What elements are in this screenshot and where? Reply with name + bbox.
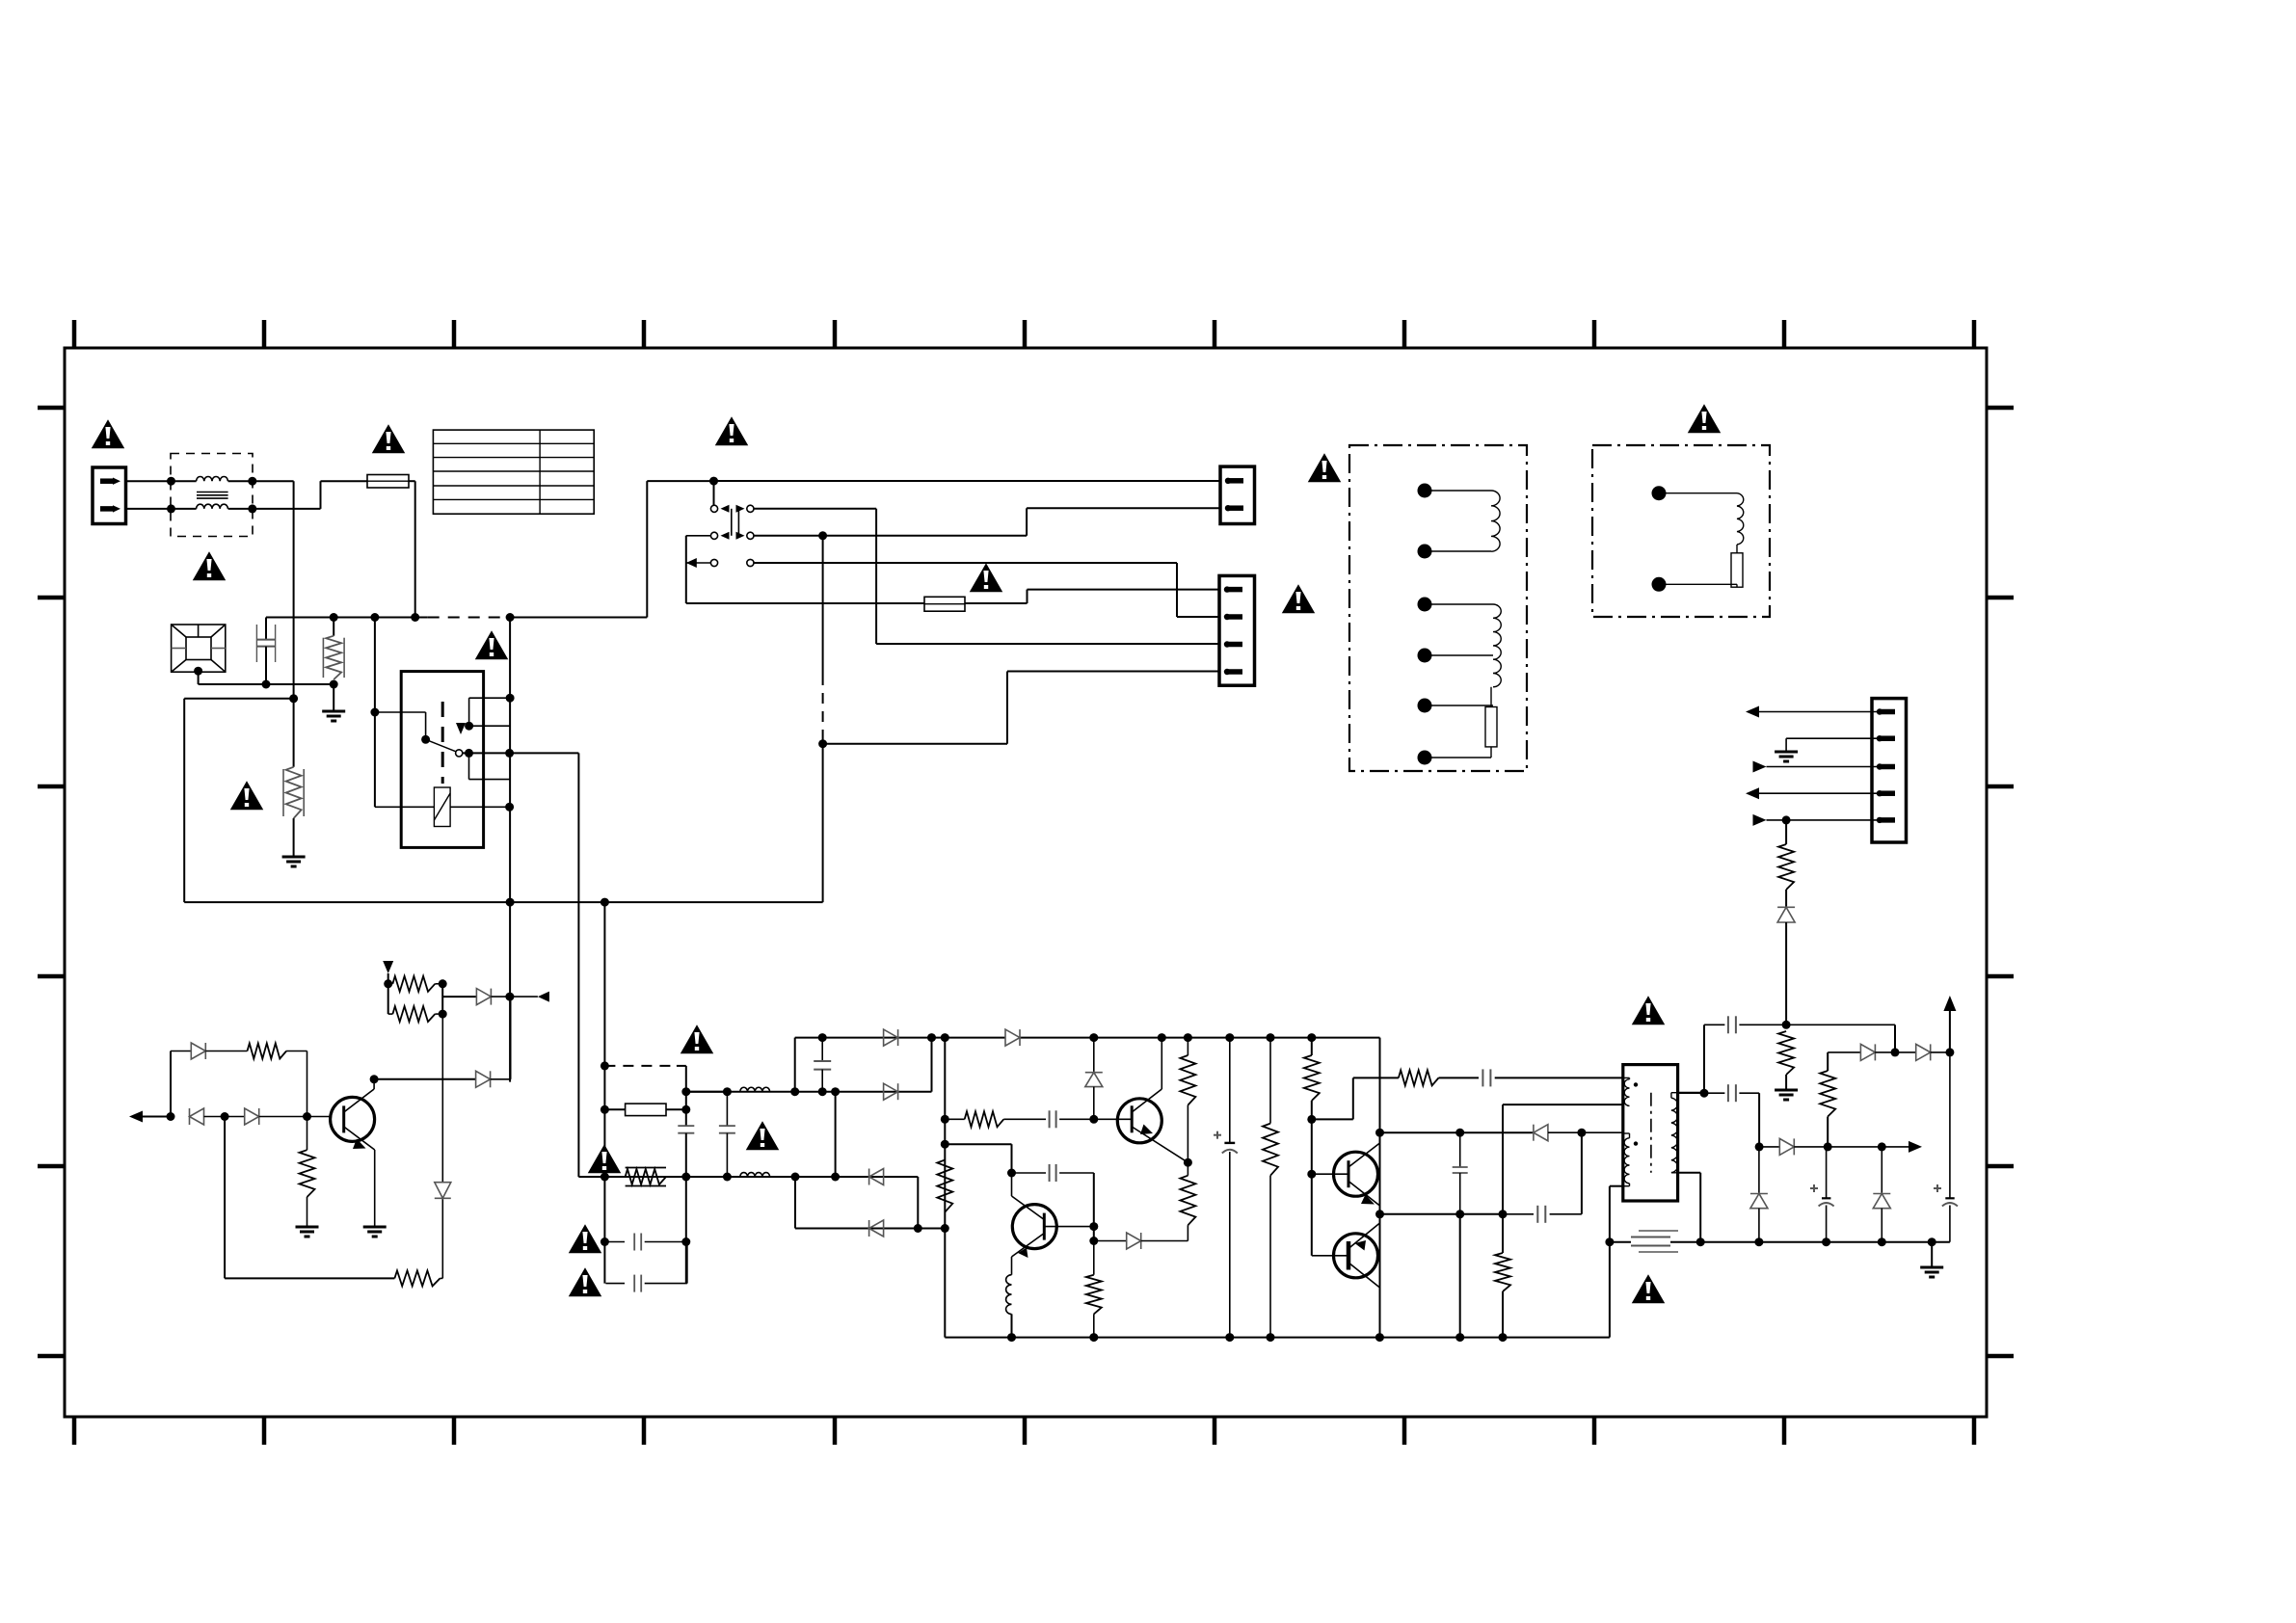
diode (190, 1108, 226, 1125)
capacitor (1482, 1069, 1622, 1086)
diode (869, 1169, 884, 1185)
wire mains to CN1-1 (714, 480, 1221, 482)
wire 0V rail (945, 1337, 1610, 1339)
node (941, 1033, 949, 1042)
wire neutral to degauss rail (253, 481, 294, 699)
wire (945, 1144, 1016, 1177)
node (167, 1112, 175, 1121)
node (221, 1112, 229, 1121)
wire T1 sec top (1678, 1092, 1704, 1094)
relay NO wire (463, 749, 578, 780)
degaussing coil DG1 (172, 625, 226, 684)
ground (296, 1227, 319, 1237)
wire CN5-5 (1753, 814, 1881, 826)
zener diode (1085, 1038, 1103, 1120)
wire B+ rail (1019, 1038, 1379, 1338)
warning symbol (590, 1146, 620, 1172)
wire (917, 1177, 919, 1229)
transformer T1 (1623, 1065, 1678, 1201)
inductor (1006, 1275, 1016, 1342)
diode (225, 1108, 307, 1125)
inductor (740, 1087, 770, 1091)
capacitor C1 (256, 618, 275, 685)
diode (476, 997, 511, 1087)
capacitor (1050, 1110, 1099, 1128)
warning symbol (477, 632, 507, 658)
wire (686, 1091, 728, 1093)
resistor (1820, 1052, 1835, 1147)
wire bridge plus row (795, 1033, 1005, 1042)
node (1755, 1142, 1764, 1151)
wire sw row3 right (754, 563, 1220, 617)
resistor (1495, 1214, 1510, 1342)
wire CN5-3 (1753, 761, 1881, 773)
wire sw row2 right (754, 508, 1220, 540)
wire AC2 row (578, 1173, 918, 1182)
node (370, 1075, 379, 1083)
wire (1307, 1119, 1316, 1255)
node (330, 680, 338, 689)
resistor (945, 1111, 1046, 1127)
warning symbol (682, 1026, 712, 1052)
resistor (388, 976, 447, 992)
fusible resistor (604, 1104, 685, 1116)
node (303, 1112, 311, 1121)
wire loop (184, 694, 298, 902)
degauss coil unit (1592, 445, 1770, 617)
wire switched line (818, 536, 827, 902)
thermistor TH2 (283, 699, 304, 856)
out arrow (1882, 1141, 1922, 1153)
resistor (300, 1117, 315, 1227)
wire (831, 1092, 840, 1182)
resistor (1263, 1038, 1278, 1343)
deflection yoke unit (1349, 445, 1527, 771)
resistor (937, 1160, 952, 1212)
wire fuse F2 feed (686, 602, 924, 604)
connector CN5 (1872, 699, 1907, 842)
warning symbol (571, 1226, 601, 1252)
diode (869, 1220, 884, 1237)
resistor (394, 1198, 442, 1286)
capacitor (1678, 1084, 1760, 1102)
relay RY1 box (401, 672, 483, 848)
connector CN2 (1219, 575, 1255, 685)
node (1375, 1129, 1384, 1342)
diode (1916, 1044, 1955, 1060)
node line-out (167, 477, 256, 514)
Y capacitor (1631, 1231, 1678, 1252)
wire sw row1 right (754, 509, 1220, 644)
ground (1775, 752, 1798, 761)
capacitor (814, 1038, 831, 1092)
warning symbol (1310, 455, 1340, 481)
warning symbol (195, 553, 225, 579)
node (1782, 1021, 1791, 1029)
wire (1089, 1173, 1098, 1245)
transistor Q3 (1012, 1173, 1094, 1275)
node (941, 1115, 949, 1233)
capacitor (1503, 1206, 1582, 1223)
node (1605, 1237, 1936, 1246)
node (505, 993, 514, 1001)
wire (374, 1078, 476, 1080)
warning symbol (717, 418, 747, 444)
wire (442, 984, 476, 1014)
resistor (1180, 1162, 1195, 1240)
fusible resistor (626, 1168, 666, 1186)
power switch SW1 (710, 481, 754, 567)
wire drive RC (1312, 1078, 1399, 1119)
capacitor (1012, 1164, 1094, 1182)
transistor Q5 (1312, 1214, 1380, 1338)
resistor (388, 1006, 447, 1022)
wire to CN2-4 (823, 672, 1220, 744)
diode (1759, 1138, 1882, 1155)
warning symbol (374, 426, 404, 452)
capacitor (1704, 1016, 1895, 1033)
wire (1700, 1024, 1709, 1097)
node (1824, 1142, 1886, 1151)
B+ arrow (1943, 996, 1956, 1052)
thermistor TH1 (323, 618, 344, 680)
wire T1 primary top (1503, 1104, 1623, 1105)
ground (1920, 1242, 1943, 1277)
zener diode (1873, 1147, 1890, 1242)
diode (1534, 1125, 1623, 1141)
node (601, 898, 609, 907)
wire secondary return (1610, 1241, 1950, 1243)
transistor Q2 (1094, 1038, 1188, 1163)
warning symbol (1634, 998, 1664, 1024)
wire (944, 1038, 946, 1338)
relay centre line (441, 702, 444, 784)
wire T1 sec bottom (1678, 1173, 1701, 1242)
wire (126, 481, 172, 509)
fuse F2 (924, 597, 965, 611)
line filter LF1 (171, 454, 253, 537)
wire (1581, 1132, 1583, 1214)
wire (170, 1051, 172, 1117)
warning symbol (1634, 1276, 1664, 1302)
relay arm arrow (456, 723, 466, 734)
transistor Q1 (331, 1079, 375, 1226)
resistor (1086, 1241, 1102, 1343)
inductor (740, 1173, 770, 1177)
wire relay to SMPS (578, 753, 604, 1177)
resistor (1304, 1038, 1320, 1124)
diode (1094, 1233, 1188, 1249)
resistor (205, 1044, 307, 1117)
relay contact arm (421, 735, 463, 757)
wire T1 primary return (1610, 1186, 1623, 1338)
electrolytic capacitor (1810, 1147, 1834, 1242)
wire fuse to rail (409, 481, 415, 617)
wire (794, 1038, 796, 1092)
arrow (383, 961, 393, 973)
wire (307, 1116, 331, 1118)
ground (363, 1227, 387, 1237)
wire CN5-4 (1746, 787, 1880, 799)
wire AC rail (266, 481, 714, 617)
wire (1891, 1024, 1900, 1056)
relay coil (375, 787, 514, 827)
diode (884, 1083, 898, 1100)
wire sw row3 left (686, 558, 711, 568)
ground (322, 684, 345, 721)
node (709, 477, 718, 486)
wire (199, 680, 334, 689)
wire drive row (1380, 1129, 1534, 1137)
ground (1775, 1090, 1798, 1100)
resistor pair feed (384, 973, 392, 1014)
warning symbol (93, 421, 123, 447)
zener diode (435, 1014, 451, 1198)
resistor to ground (1778, 1031, 1794, 1089)
warning symbol (1284, 586, 1314, 612)
node (681, 1237, 690, 1246)
ground (282, 857, 306, 866)
wire CN5-2 (1786, 738, 1880, 751)
electrolytic capacitor (1934, 1052, 1958, 1242)
node (330, 613, 515, 622)
wire sw row2 left (686, 536, 711, 603)
zener diode (1777, 907, 1795, 1024)
wire (1758, 1093, 1760, 1147)
warning symbol (1690, 406, 1720, 432)
diode (884, 1029, 898, 1046)
wire (225, 1117, 394, 1279)
wire neutral rail (184, 898, 822, 907)
wire (1502, 1104, 1504, 1214)
diode (1828, 1044, 1916, 1060)
wire AC1 row (681, 1038, 931, 1097)
voltage table (433, 430, 594, 514)
node (1089, 1033, 1316, 1042)
diode (476, 989, 510, 1005)
AC inlet connector P1 (93, 467, 126, 524)
warning symbol (748, 1123, 778, 1149)
connector CN1 (1220, 466, 1255, 523)
electrolytic capacitor (1214, 1038, 1238, 1343)
transistor Q4 (1312, 1132, 1380, 1214)
wire (510, 992, 549, 1002)
wire F2 to CN2-1 (965, 590, 1220, 603)
warning symbol (972, 565, 1001, 591)
capacitor (719, 1092, 735, 1177)
wire rail to relay (370, 618, 425, 808)
wire line to fuse (253, 481, 367, 509)
relay NC feed (465, 618, 514, 1082)
resistor (1399, 1070, 1479, 1085)
wire (604, 1065, 685, 1067)
wire (1380, 1210, 1508, 1218)
diode (1005, 1029, 1020, 1046)
capacitor (605, 1242, 687, 1292)
wire (794, 1177, 796, 1229)
resistor (1180, 1038, 1195, 1167)
zener diode (1750, 1147, 1768, 1242)
wire minus row (795, 1224, 945, 1233)
warning symbol (571, 1269, 601, 1295)
capacitor (605, 1234, 685, 1251)
warning symbol (232, 783, 262, 809)
wire (681, 1066, 690, 1126)
wire (1455, 1214, 1464, 1342)
snubber capacitor (1453, 1132, 1468, 1214)
capacitor (678, 1126, 694, 1284)
resistor (1778, 820, 1794, 907)
wire CN5-1 (1746, 706, 1880, 718)
diode (171, 1043, 1052, 1059)
wire (601, 902, 609, 1284)
input arrow (129, 1111, 171, 1123)
fuse F1 (367, 475, 409, 489)
